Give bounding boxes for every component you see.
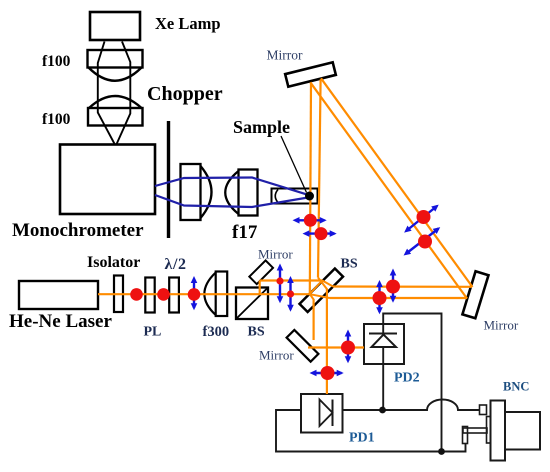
PD2 diode cathode bar [369, 333, 397, 335]
junction dot 2 [438, 448, 445, 455]
arrow lower parallel [289, 281, 291, 310]
isolator plate [114, 276, 123, 313]
beam refraction fan in central BS [310, 278, 333, 300]
central BS plate [300, 269, 343, 312]
sample pointer line [281, 136, 307, 193]
small mirror above BS cube [249, 260, 273, 284]
PD1 diode cathode bar [332, 400, 334, 427]
svg-text:f300: f300 [203, 324, 230, 340]
PD1 diode triangle [320, 400, 333, 427]
svg-text:f100: f100 [42, 53, 71, 70]
lens f100-1 body [88, 50, 143, 68]
wire PD2 top loop [383, 314, 441, 452]
beam: upper parallel to central BS [260, 279, 323, 281]
arrow diagonal A [408, 206, 437, 230]
small red dot lower parallel [287, 290, 294, 297]
sample holder [272, 189, 318, 204]
red dot above sample B [315, 227, 328, 240]
arrow at sample dot B [308, 232, 335, 234]
BS cube diagonal [237, 288, 268, 319]
svg-text:f100: f100 [42, 111, 71, 128]
arrow PD1 arm [315, 372, 342, 374]
PD1 box [301, 394, 343, 433]
svg-text:BS: BS [341, 257, 358, 272]
red dot after isolator [130, 288, 143, 301]
beam lamp to monochromator left ray [98, 42, 115, 145]
beam: vertical loop arm B [318, 80, 321, 278]
arrow PD2 arm [347, 335, 349, 362]
sample holder curved end [275, 190, 278, 203]
BNC left plate [487, 417, 491, 444]
BNC flange [491, 401, 506, 461]
arrow right arm upper [392, 274, 394, 301]
beam: down leg to bottom mirror [313, 299, 315, 340]
lens f17-1 convex face [201, 166, 212, 218]
beam: vertical loop arm A [310, 83, 311, 295]
BS cube [236, 288, 268, 320]
svg-text:PL: PL [144, 325, 162, 340]
arrow at sample dot A [298, 219, 325, 221]
polarizer PL plate [145, 278, 154, 313]
svg-text:Mirror: Mirror [484, 318, 519, 333]
half-wave plate [169, 278, 179, 313]
lens f17-2 body [239, 170, 258, 216]
sample spot [305, 192, 314, 201]
svg-text:Mirror: Mirror [267, 48, 303, 63]
wire PD2 bottom to junction [382, 347, 384, 410]
beam: horizontal right arm lower [330, 297, 468, 299]
beam: diagonal arm A [310, 82, 467, 298]
svg-text:Sample: Sample [233, 117, 290, 137]
arrow right arm lower [378, 285, 380, 312]
wire PD1 left ground loop [276, 410, 466, 452]
monochromator box [60, 145, 155, 215]
red dot diagonal A [417, 210, 431, 224]
svg-text:BNC: BNC [503, 380, 529, 394]
beam lamp to monochromator right ray [117, 42, 131, 145]
svg-text:Chopper: Chopper [147, 83, 223, 105]
beam: horizontal right arm upper [333, 285, 472, 287]
svg-text:PD2: PD2 [394, 371, 420, 386]
lens f300 body [216, 272, 228, 317]
wire PD1 to BNC with crossover hump [343, 400, 480, 411]
lens f300 convex face [204, 273, 215, 316]
right mirror [462, 271, 488, 318]
laser beam main horizontal [98, 293, 310, 295]
svg-text:PD1: PD1 [349, 431, 375, 446]
BNC center contact [480, 405, 487, 415]
lens f100-2 body [88, 108, 143, 126]
lens f17-1 body [181, 164, 201, 220]
arrow diagonal B [408, 229, 439, 253]
BNC ground pin bar [463, 428, 487, 433]
beam: diagonal arm B [321, 78, 473, 287]
PD2 box [364, 324, 404, 364]
red dot right arm lower [373, 291, 387, 305]
chopper blade line [167, 121, 170, 238]
lens f17-2 convex face [225, 171, 238, 214]
small red dot upper parallel [276, 277, 283, 284]
beam: bottom mirror to PD2 [308, 346, 364, 348]
He-Ne laser box [19, 281, 98, 309]
beam: down leg to PD1 [326, 289, 328, 395]
Xe lamp box [90, 12, 140, 40]
svg-text:λ/2: λ/2 [165, 256, 187, 273]
red dot right arm upper [386, 280, 400, 294]
BNC body [505, 412, 540, 450]
beam: cube BS up leg [259, 281, 261, 295]
arrow upper parallel [279, 269, 281, 302]
red dot PD1 arm [321, 366, 335, 380]
lens f100-2 convex face [89, 96, 142, 108]
svg-text:Mirror: Mirror [258, 247, 293, 262]
red dot PD2 arm [341, 341, 355, 355]
BNC ground pin post [463, 427, 468, 444]
svg-text:Monochrometer: Monochrometer [12, 220, 144, 241]
red dot diagonal B [418, 235, 432, 249]
blue probe ray upper [155, 178, 308, 195]
bottom mirror [287, 330, 319, 362]
lens f100-1 convex face [89, 68, 142, 81]
svg-text:Isolator: Isolator [87, 254, 140, 271]
svg-text:He-Ne Laser: He-Ne Laser [9, 311, 112, 332]
red dot after half-wave plate [188, 288, 201, 301]
PD2 diode triangle [372, 335, 397, 348]
svg-text:BS: BS [248, 325, 265, 340]
svg-text:Xe Lamp: Xe Lamp [155, 14, 221, 33]
top mirror [285, 62, 336, 86]
arrow at half-wave plate dot [193, 281, 195, 308]
blue probe ray lower [155, 195, 308, 207]
junction dot 1 [379, 407, 386, 414]
svg-text:Mirror: Mirror [259, 348, 294, 363]
red dot after PL [157, 288, 170, 301]
svg-text:f17: f17 [232, 222, 258, 243]
red dot above sample A [304, 214, 317, 227]
